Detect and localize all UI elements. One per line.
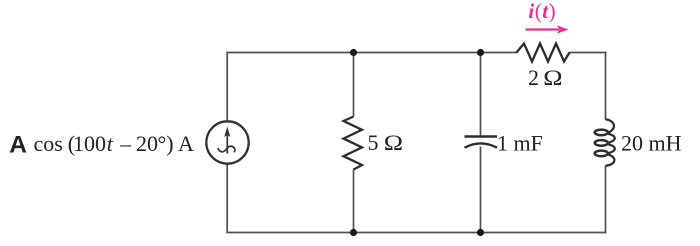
current source IS1 sine squiggle bbox=[218, 146, 235, 152]
svg-text:2: 2 bbox=[528, 65, 539, 90]
current source IS1 arrowhead bbox=[224, 127, 230, 137]
capacitor C1 bottom curved plate bbox=[465, 143, 498, 147]
svg-text:cos(100t–20°)A: cos(100t–20°)A bbox=[34, 131, 195, 156]
wire bottom-middle segment bbox=[354, 232, 481, 234]
capacitor C1 top plate bbox=[465, 135, 498, 137]
svg-text:i(t): i(t) bbox=[528, 0, 556, 23]
wire resistor R1 bottom lead bbox=[353, 170, 355, 233]
wire capacitor C1 top lead bbox=[480, 53, 482, 137]
svg-text:20 mH: 20 mH bbox=[621, 131, 682, 156]
wire top-middle segment bbox=[354, 52, 481, 54]
wire left vertical above source bbox=[226, 52, 228, 122]
resistor R2 2ohm zigzag bbox=[517, 44, 570, 62]
svg-text:Ω: Ω bbox=[384, 132, 403, 156]
wire right vertical below inductor bbox=[605, 166, 607, 234]
resistor R1 5ohm zigzag bbox=[344, 117, 363, 170]
wire bottom-left segment bbox=[227, 232, 354, 234]
wire top lead to resistor R2 bbox=[481, 52, 518, 54]
svg-text:5: 5 bbox=[368, 130, 379, 155]
svg-text:1 mF: 1 mF bbox=[497, 131, 543, 156]
svg-text:Ω: Ω bbox=[543, 67, 562, 91]
current arrow i(t) pink shaft bbox=[526, 28, 560, 30]
wire top-left segment bbox=[227, 52, 354, 54]
current source IS1 arrow shaft bbox=[226, 133, 228, 154]
node dot bottom A bbox=[350, 229, 357, 236]
current source IS1 circle bbox=[206, 121, 248, 163]
wire resistor R2 to top-right corner bbox=[569, 52, 606, 54]
inductor L1 coil bbox=[595, 119, 615, 166]
node dot top B bbox=[477, 49, 484, 56]
wire left vertical below source bbox=[226, 164, 228, 234]
svg-text:A: A bbox=[9, 132, 27, 159]
wire capacitor C1 bottom lead bbox=[480, 147, 482, 233]
wire bottom-right segment bbox=[481, 232, 607, 234]
node dot bottom B bbox=[477, 229, 484, 236]
current arrow i(t) pink head bbox=[557, 25, 569, 33]
wire resistor R1 top lead bbox=[353, 53, 355, 117]
wire right vertical above inductor bbox=[605, 52, 607, 120]
node dot top A bbox=[350, 49, 357, 56]
